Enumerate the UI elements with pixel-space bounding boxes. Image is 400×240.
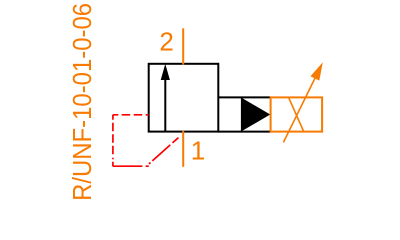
svg-text:1: 1	[191, 136, 205, 166]
flow arrow	[161, 64, 170, 131]
port 1 wire	[182, 131, 184, 167]
channel top wire	[218, 96, 270, 98]
pilot wire top	[113, 114, 149, 116]
solenoid box	[271, 97, 323, 131]
port 2 wire	[182, 28, 184, 64]
svg-text:R/UNF-10-01-0-06: R/UNF-10-01-0-06	[67, 3, 97, 200]
check triangle	[241, 97, 270, 131]
proportional arrow	[283, 62, 322, 142]
pilot wire diagonal	[149, 134, 183, 164]
channel bottom wire	[218, 131, 270, 133]
pilot wire left	[112, 115, 114, 166]
pilot wire bottom	[113, 165, 149, 167]
svg-text:2: 2	[159, 27, 173, 57]
valve body	[149, 64, 219, 132]
solenoid X stroke	[289, 97, 304, 131]
